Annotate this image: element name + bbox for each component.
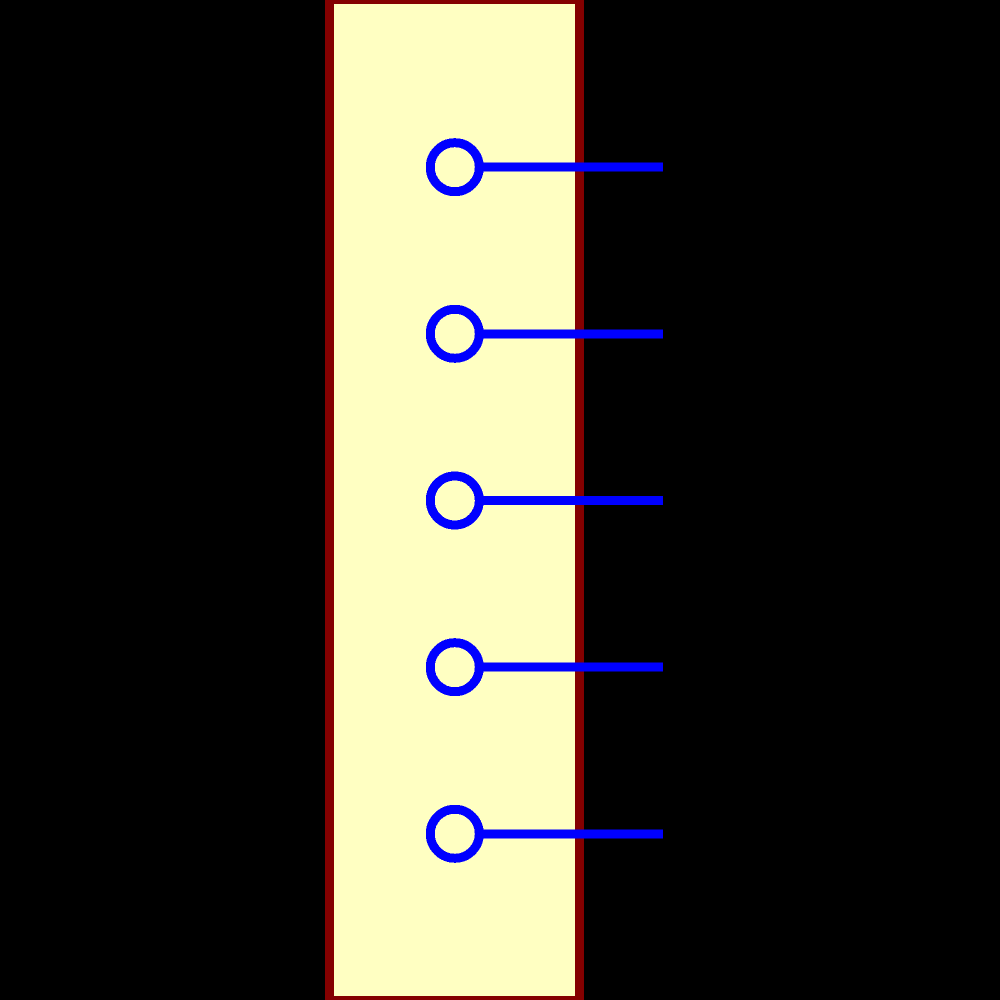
pin 1 wire (481, 163, 663, 172)
pin 1 circle (430, 143, 479, 192)
pin 4 wire (481, 663, 663, 672)
pin 3 circle (430, 476, 479, 525)
connector body J1 (330, 0, 580, 1000)
pin 2 circle (430, 309, 479, 358)
pin 2 wire (481, 329, 663, 338)
pin 5 wire (481, 829, 663, 838)
pin 3 wire (481, 496, 663, 505)
pin 5 circle (430, 809, 479, 858)
pin 4 circle (430, 643, 479, 692)
